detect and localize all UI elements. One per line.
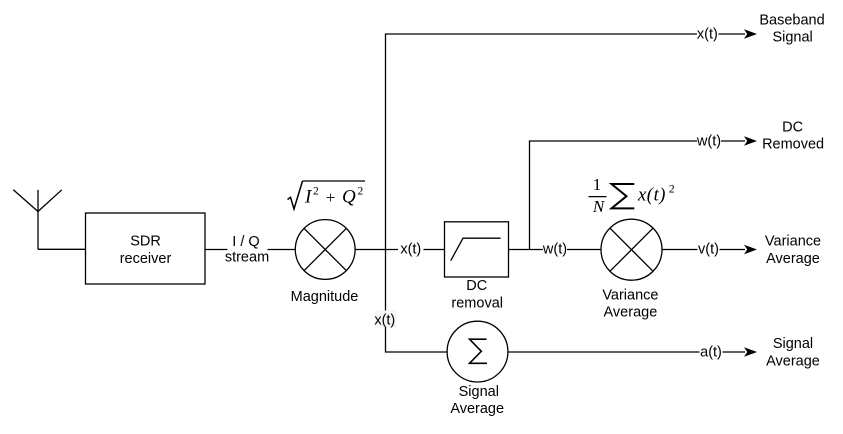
DC removal box bbox=[445, 222, 509, 277]
node SDR receiver label bbox=[120, 234, 172, 268]
svg-text:x(t): x(t) bbox=[697, 27, 718, 43]
svg-text:DC: DC bbox=[782, 120, 803, 136]
arrowhead signal bbox=[744, 347, 757, 357]
net I/Q stream label bbox=[225, 234, 269, 266]
sigma symbol in Signal Average bbox=[470, 339, 488, 363]
svg-text:I / Q: I / Q bbox=[232, 234, 259, 250]
svg-text:Signal: Signal bbox=[459, 384, 499, 400]
summation U3 Signal Average circle bbox=[447, 321, 508, 382]
svg-text:receiver: receiver bbox=[120, 251, 172, 267]
svg-text:Removed: Removed bbox=[762, 137, 824, 153]
multiplier U1 Magnitude circle bbox=[295, 220, 355, 280]
svg-text:2: 2 bbox=[669, 181, 675, 195]
label DC removal bbox=[451, 278, 503, 311]
svg-text:stream: stream bbox=[225, 250, 269, 266]
wire antenna to SDR receiver bbox=[38, 248, 86, 250]
wire x(t) bus with baseband output bbox=[386, 34, 746, 352]
wire w(t) branch with DC removed output bbox=[530, 141, 746, 250]
svg-text:a(t): a(t) bbox=[700, 345, 722, 361]
multiplier U2 Variance circle bbox=[601, 219, 662, 280]
label backgrounds bbox=[228, 26, 723, 360]
arrowhead DC removed bbox=[744, 136, 757, 146]
formula (1/N) sum x(t)^2 bbox=[589, 175, 675, 216]
wire signal average output bbox=[508, 351, 745, 353]
svg-text:Magnitude: Magnitude bbox=[291, 289, 359, 305]
svg-text:Average: Average bbox=[450, 401, 504, 417]
svg-text:x(t): x(t) bbox=[374, 313, 395, 329]
svg-text:w(t): w(t) bbox=[542, 242, 567, 258]
wire SDR receiver to magnitude multiplier bbox=[205, 249, 295, 251]
svg-text:v(t): v(t) bbox=[698, 242, 719, 258]
SDR receiver box bbox=[86, 213, 206, 284]
svg-text:w(t): w(t) bbox=[696, 134, 721, 150]
svg-text:Variance: Variance bbox=[765, 234, 821, 250]
svg-text:Signal: Signal bbox=[772, 30, 812, 46]
wire variance output bbox=[662, 249, 745, 251]
svg-text:+: + bbox=[326, 188, 336, 207]
svg-text:DC: DC bbox=[466, 278, 487, 294]
svg-text:2: 2 bbox=[358, 186, 364, 198]
svg-text:N: N bbox=[592, 197, 606, 216]
svg-text:Average: Average bbox=[604, 305, 658, 321]
label Signal Average output bbox=[766, 336, 820, 369]
svg-text:Baseband: Baseband bbox=[759, 13, 824, 29]
svg-text:Average: Average bbox=[766, 353, 820, 369]
wire magnitude to DC removal bbox=[355, 249, 444, 251]
highpass curve inside DC removal bbox=[451, 238, 501, 261]
label DC Removed bbox=[762, 120, 824, 153]
svg-text:Q: Q bbox=[342, 187, 356, 208]
svg-text:Variance: Variance bbox=[602, 288, 658, 304]
label Variance Average bbox=[602, 288, 658, 321]
svg-text:1: 1 bbox=[593, 175, 602, 194]
svg-text:x(t): x(t) bbox=[637, 185, 666, 205]
arrowhead baseband bbox=[744, 29, 757, 39]
label Baseband Signal bbox=[759, 13, 824, 46]
label Variance Average output bbox=[765, 234, 821, 268]
svg-text:Average: Average bbox=[766, 251, 820, 267]
formula sqrt(I^2+Q^2) bbox=[288, 181, 366, 209]
arrowhead variance bbox=[744, 245, 757, 255]
svg-text:2: 2 bbox=[313, 186, 319, 198]
svg-text:x(t): x(t) bbox=[400, 242, 421, 258]
label Signal Average under sigma bbox=[450, 384, 504, 417]
svg-text:removal: removal bbox=[451, 296, 503, 312]
svg-text:SDR: SDR bbox=[130, 234, 161, 250]
antenna bbox=[13, 190, 62, 250]
wire DC removal to variance multiplier bbox=[509, 249, 602, 251]
svg-text:Signal: Signal bbox=[773, 336, 813, 352]
